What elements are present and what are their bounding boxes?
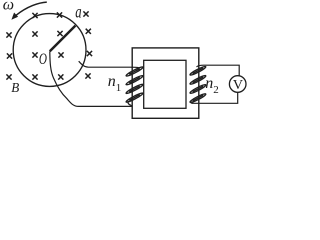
primary coil n1 (4 turns)	[125, 66, 143, 107]
rotating rod Oa	[50, 26, 76, 52]
field cross x4	[6, 32, 11, 37]
field cross x7	[86, 29, 91, 34]
field cross x11	[87, 51, 92, 56]
wire: centre O down to primary coil bottom	[50, 51, 132, 106]
field cross x3	[83, 11, 88, 16]
field cross x1	[32, 13, 37, 18]
svg-text:V: V	[233, 78, 243, 93]
field cross x5	[32, 31, 37, 36]
field cross x13	[32, 74, 37, 79]
field cross x9	[32, 52, 37, 57]
transformer core outer rectangle	[132, 48, 199, 118]
rotation direction arrow	[11, 2, 46, 20]
secondary coil n2 (4 turns)	[189, 65, 206, 103]
field cross x2	[57, 12, 62, 17]
field cross x8	[7, 53, 12, 58]
field cross x10	[58, 52, 63, 57]
wire: ring rim to primary coil top	[79, 61, 139, 67]
field cross x14	[58, 74, 63, 79]
wire: secondary coil top to voltmeter	[197, 65, 240, 76]
transformer core inner rectangle	[144, 60, 186, 108]
field cross x12	[6, 74, 11, 79]
conducting circular ring	[13, 14, 86, 87]
svg-text:B: B	[11, 80, 19, 95]
field cross x15	[85, 73, 90, 78]
svg-text:a: a	[75, 2, 82, 22]
wire: voltmeter bottom to secondary coil bottom	[193, 92, 237, 103]
svg-text:O: O	[39, 50, 47, 67]
svg-text:ω: ω	[3, 0, 14, 13]
field cross x6	[57, 31, 62, 36]
voltmeter	[229, 76, 246, 93]
